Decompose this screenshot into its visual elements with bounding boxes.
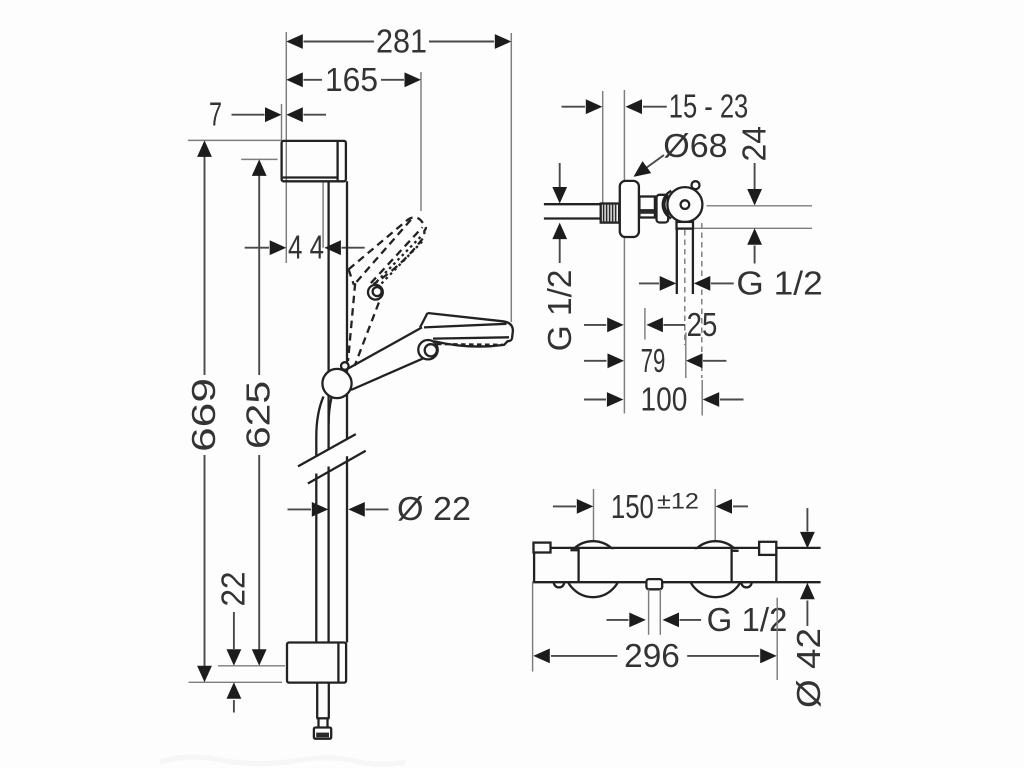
dimension G1/2 right xyxy=(639,264,823,301)
extension lines G1/2 outlet xyxy=(649,589,661,635)
svg-text:165: 165 xyxy=(325,61,378,98)
thermostat body fill xyxy=(535,549,776,581)
right screw boss xyxy=(741,582,751,587)
body left edge xyxy=(533,548,535,582)
dimension 296 xyxy=(533,637,776,674)
rail break mark xyxy=(298,434,366,483)
svg-text:Ø 22: Ø 22 xyxy=(397,490,471,527)
extension line 150 left xyxy=(593,489,595,542)
dimension diameter 42 xyxy=(790,508,827,708)
extension line 25 xyxy=(644,308,646,340)
dimension diameter 22 xyxy=(288,490,472,527)
wall line back xyxy=(602,91,604,204)
supply pipe xyxy=(544,204,601,218)
swivel joint xyxy=(322,369,351,398)
dimension G1/2 bottom xyxy=(607,601,788,638)
label diameter 68 with leader xyxy=(629,127,727,183)
svg-text:25: 25 xyxy=(687,306,718,343)
svg-text:669: 669 xyxy=(185,378,222,452)
holder nub xyxy=(692,181,700,189)
shower holder ball xyxy=(667,187,702,222)
rail bar xyxy=(329,181,347,642)
check valve block xyxy=(657,191,672,223)
axis line pivot xyxy=(707,205,813,207)
dashed hand shower (upper position) xyxy=(303,208,459,367)
extension line 625 top xyxy=(241,158,277,160)
svg-text:15 - 23: 15 - 23 xyxy=(669,88,749,125)
dimension 281 xyxy=(286,23,511,60)
swivel holder nub xyxy=(341,362,349,370)
svg-text:150: 150 xyxy=(611,488,654,525)
bottom wall bracket xyxy=(287,643,346,683)
extension line 150 right xyxy=(714,489,716,542)
svg-text:±12: ±12 xyxy=(657,489,699,514)
svg-text:625: 625 xyxy=(240,381,277,449)
hose along rail xyxy=(316,397,331,643)
dimension 165 xyxy=(286,61,421,98)
dimension 625 xyxy=(240,159,277,665)
right joint line xyxy=(732,548,739,582)
dimension 25 xyxy=(584,306,717,343)
extension line 669 top xyxy=(188,139,282,141)
dimension 24 xyxy=(736,126,773,263)
solid hand shower (lower position) xyxy=(346,313,513,390)
escutcheon flange xyxy=(620,181,639,237)
extension line 7 left xyxy=(281,104,283,141)
extension line 296 left xyxy=(532,582,534,671)
right wall stub xyxy=(759,542,776,555)
svg-text:24: 24 xyxy=(736,126,773,162)
extension line 100 xyxy=(701,380,703,416)
body right edge xyxy=(775,548,777,582)
svg-text:G 1/2: G 1/2 xyxy=(707,601,788,638)
svg-text:22: 22 xyxy=(214,572,251,607)
svg-text:100: 100 xyxy=(641,381,688,418)
dimension 150 plus-minus 12 xyxy=(553,488,748,525)
dimension 44 xyxy=(245,229,365,266)
watermark xyxy=(160,757,405,764)
extension line 165 right xyxy=(420,72,422,211)
extension line 625 bottom xyxy=(218,665,285,667)
svg-text:296: 296 xyxy=(624,637,680,674)
svg-text:7: 7 xyxy=(209,96,222,133)
dimension 7 xyxy=(209,96,326,133)
holder hose outlet xyxy=(677,222,702,378)
extension line wall plane left xyxy=(285,32,287,263)
extension line 669 bottom xyxy=(189,681,283,683)
dimension 22 bottom-left xyxy=(214,572,251,713)
svg-text:79: 79 xyxy=(641,342,666,379)
svg-text:Ø68: Ø68 xyxy=(663,127,727,164)
axis line outlet bottom xyxy=(693,227,812,229)
svg-text:281: 281 xyxy=(376,23,427,60)
connector nut xyxy=(639,197,655,218)
extension line 79 xyxy=(685,333,687,379)
extension line 44 right xyxy=(322,181,324,247)
extension line 281 right xyxy=(510,33,512,322)
dimension 15-23 xyxy=(562,88,749,125)
extension line 296 right xyxy=(776,598,778,680)
dimension G1/2 left xyxy=(541,163,578,351)
svg-text:G 1/2: G 1/2 xyxy=(541,270,578,352)
right escutcheon bell xyxy=(688,541,744,597)
hose end nut xyxy=(314,728,331,739)
left escutcheon bell xyxy=(565,541,621,597)
holder center pin xyxy=(681,200,690,209)
svg-text:G 1/2: G 1/2 xyxy=(736,264,822,301)
top wall bracket xyxy=(282,141,346,181)
wall line front xyxy=(623,90,625,414)
left wall stub xyxy=(534,543,551,553)
left screw boss xyxy=(554,582,564,587)
bottom outlet stub xyxy=(646,579,662,589)
body top edge xyxy=(551,547,821,549)
dimension 100 xyxy=(584,381,744,418)
pipe thread hatched xyxy=(601,204,619,223)
body bottom edge xyxy=(533,581,821,583)
svg-text:Ø 42: Ø 42 xyxy=(790,628,827,708)
dimension 669 xyxy=(185,140,222,682)
svg-text:4 4: 4 4 xyxy=(288,229,324,266)
hose below bottom bracket xyxy=(317,683,330,728)
dimension 79 xyxy=(584,342,726,379)
left joint line xyxy=(570,548,578,582)
